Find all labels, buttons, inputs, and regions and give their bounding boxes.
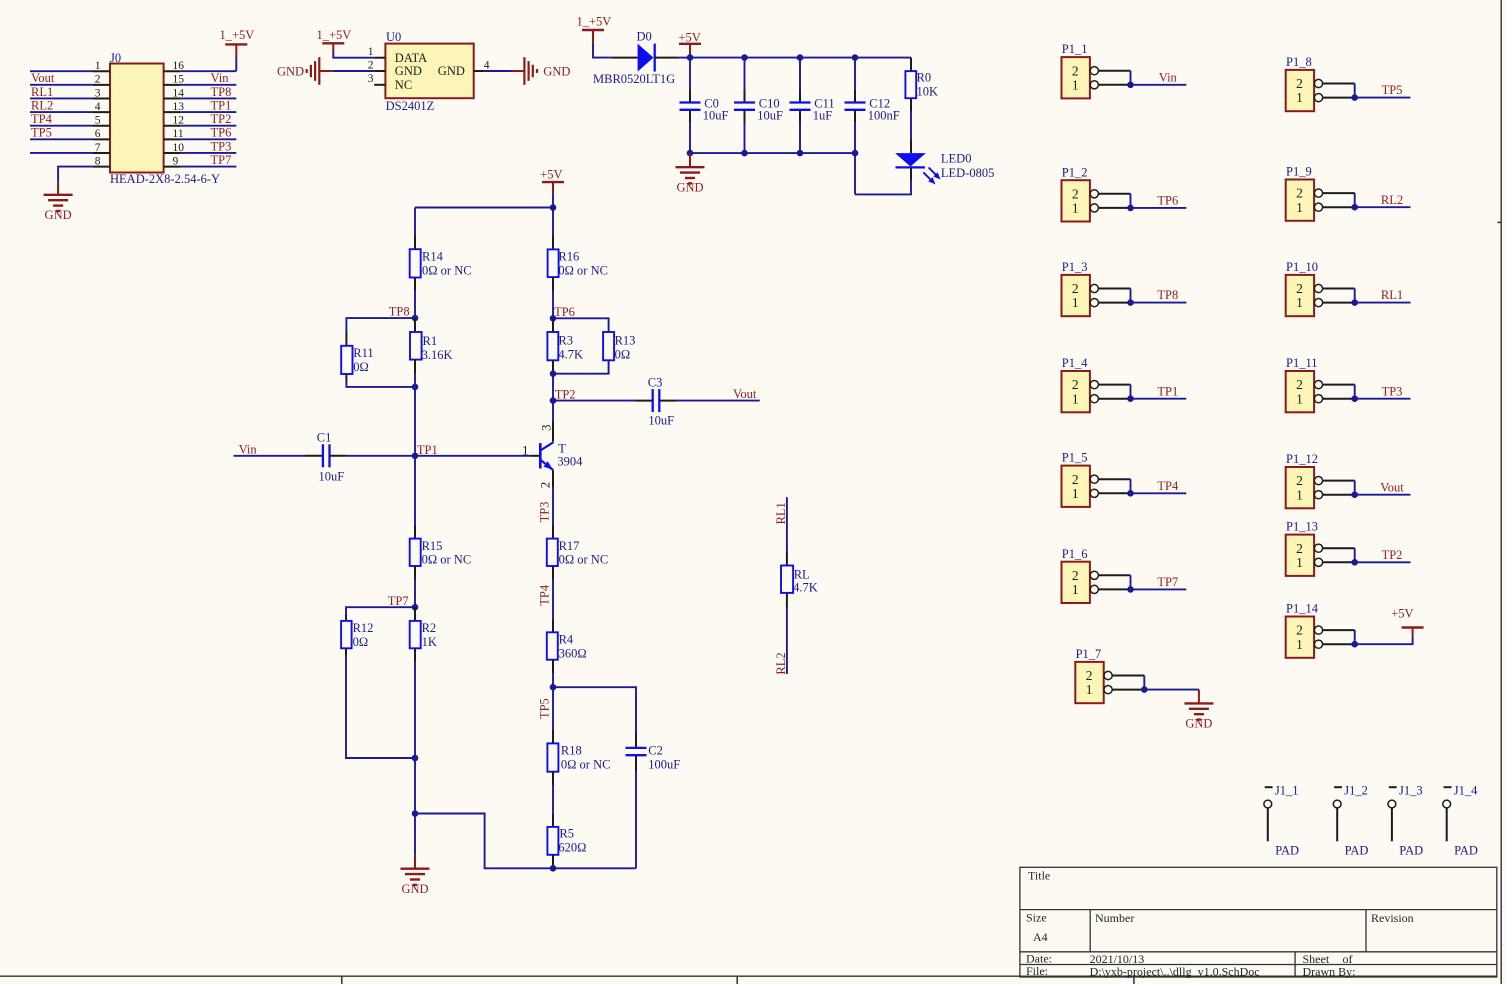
P1_1 pin 1 lead bbox=[1098, 84, 1130, 86]
svg-text:TP7: TP7 bbox=[1157, 575, 1178, 589]
svg-text:P1_5: P1_5 bbox=[1062, 451, 1088, 465]
wire C0 lower bbox=[689, 122, 691, 153]
node junction bottom C0 bbox=[687, 150, 694, 157]
wire P1_9 net bbox=[1355, 206, 1411, 208]
capacitor C11 bbox=[790, 101, 811, 103]
pad J1_1 terminal circle bbox=[1264, 800, 1272, 808]
svg-text:Revision: Revision bbox=[1371, 911, 1414, 925]
IC U0 body bbox=[385, 44, 473, 99]
svg-text:4.7K: 4.7K bbox=[558, 347, 583, 361]
resistor R17 bbox=[547, 539, 558, 566]
resistor R13 bbox=[603, 332, 614, 360]
sheet border zone tick bottom 3 bbox=[1133, 976, 1135, 984]
svg-text:GND: GND bbox=[543, 64, 570, 78]
J0 pin 5 bbox=[93, 125, 110, 127]
svg-text:2: 2 bbox=[1072, 377, 1079, 392]
svg-text:0Ω or NC: 0Ω or NC bbox=[559, 553, 609, 567]
svg-text:DS2401Z: DS2401Z bbox=[386, 99, 435, 113]
J0 pin 3 bbox=[93, 97, 110, 99]
wire red stub GND left bbox=[320, 70, 333, 72]
wire emitter to R17 bbox=[552, 487, 554, 525]
node TP7 bbox=[412, 604, 419, 611]
connector P1_14 body bbox=[1286, 617, 1314, 658]
resistor R3 bbox=[547, 332, 558, 360]
RL pin top bbox=[786, 551, 788, 566]
wire P1_3 net bbox=[1131, 302, 1187, 304]
J0 pin 8 bbox=[93, 166, 110, 168]
svg-text:100uF: 100uF bbox=[648, 757, 680, 771]
wire J0 pin4 left bbox=[30, 111, 93, 113]
node P1_12 junction bbox=[1351, 491, 1358, 498]
svg-text:LED0: LED0 bbox=[941, 152, 972, 166]
svg-text:1: 1 bbox=[1072, 201, 1079, 216]
svg-text:+5V: +5V bbox=[1391, 607, 1413, 621]
resistor R12 bbox=[341, 621, 352, 648]
connector P1_4 body bbox=[1062, 371, 1090, 412]
wire R11 to lower node bbox=[346, 382, 415, 387]
P1_8 pin 1 circle bbox=[1314, 94, 1322, 102]
wire U0 pin4 to GND bbox=[485, 70, 512, 72]
svg-text:3.16K: 3.16K bbox=[422, 348, 453, 362]
C0 pin lower bbox=[689, 111, 691, 123]
svg-text:P1_3: P1_3 bbox=[1062, 260, 1088, 274]
capacitor C3 bbox=[652, 389, 654, 412]
R15 pin bottom bbox=[414, 566, 416, 580]
svg-text:P1_13: P1_13 bbox=[1286, 520, 1318, 534]
P1_3 pin 1 lead bbox=[1098, 302, 1130, 304]
P1_14 pin 1 circle bbox=[1314, 640, 1322, 648]
wire R0 branch top bbox=[910, 58, 912, 72]
wire P1_12 net bbox=[1355, 494, 1411, 496]
resistor R0 bbox=[905, 71, 916, 98]
svg-text:100nF: 100nF bbox=[868, 109, 900, 123]
svg-text:2: 2 bbox=[95, 74, 101, 86]
node P1_11 junction bbox=[1351, 395, 1358, 402]
svg-text:2: 2 bbox=[538, 482, 553, 489]
pad J1_3 terminal circle bbox=[1388, 800, 1396, 808]
connector P1_5 body bbox=[1062, 466, 1090, 507]
svg-text:RL1: RL1 bbox=[1381, 288, 1403, 302]
svg-text:1: 1 bbox=[1296, 90, 1303, 105]
wire P1_7 to GND bbox=[1144, 689, 1199, 691]
svg-text:0Ω: 0Ω bbox=[353, 635, 369, 649]
wire P1_1 net bbox=[1131, 84, 1187, 86]
wire +5V stem bbox=[552, 194, 554, 207]
svg-text:RL1: RL1 bbox=[31, 85, 53, 99]
wire P1_12 pin2 bend bbox=[1354, 481, 1356, 495]
svg-text:TP3: TP3 bbox=[537, 502, 551, 523]
wire +5V rail to R0 bbox=[690, 57, 911, 59]
svg-text:P1_4: P1_4 bbox=[1062, 356, 1088, 370]
R3 pin bottom bbox=[552, 360, 554, 373]
svg-text:Vout: Vout bbox=[31, 71, 55, 85]
R5 pin bottom bbox=[552, 855, 554, 869]
P1_13 pin 2 lead bbox=[1323, 547, 1355, 549]
svg-text:LED-0805: LED-0805 bbox=[941, 166, 994, 180]
svg-text:3: 3 bbox=[368, 73, 374, 85]
resistor R18 bbox=[547, 743, 558, 771]
wire TP1 to R15 bbox=[414, 456, 416, 525]
node GND branch junction bbox=[412, 810, 419, 817]
power port 1_+5V at D0 bbox=[582, 29, 604, 31]
svg-text:RL: RL bbox=[794, 568, 810, 582]
svg-text:RL2: RL2 bbox=[1381, 193, 1403, 207]
svg-text:TP1: TP1 bbox=[1157, 384, 1178, 398]
capacitor C2 bbox=[626, 747, 647, 749]
svg-text:R5: R5 bbox=[559, 827, 574, 841]
wire J0 pin16 right bbox=[181, 70, 237, 72]
P1_11 pin 2 circle bbox=[1314, 381, 1322, 389]
connector P1_1 body bbox=[1062, 57, 1090, 98]
R4 pin bottom bbox=[552, 660, 554, 673]
P1_11 pin 1 circle bbox=[1314, 395, 1322, 403]
resistor R1 bbox=[410, 332, 422, 360]
U0 pin 1 bbox=[375, 57, 386, 59]
P1_7 pin 2 circle bbox=[1104, 671, 1112, 679]
svg-text:TP8: TP8 bbox=[389, 304, 410, 318]
svg-text:File:: File: bbox=[1026, 964, 1048, 978]
J0 pin 11 bbox=[164, 138, 181, 140]
J0 pin 2 bbox=[93, 84, 110, 86]
P1_2 pin 2 lead bbox=[1098, 193, 1130, 195]
wire node to TP2 bbox=[552, 374, 554, 401]
connector P1_9 body bbox=[1286, 180, 1314, 221]
C10 pin upper bbox=[744, 90, 746, 102]
transistor T Q-3904 bbox=[539, 443, 542, 468]
resistor R14 bbox=[410, 249, 421, 277]
wire J0 pin3 left bbox=[30, 97, 93, 99]
svg-text:R16: R16 bbox=[558, 250, 579, 264]
C12 pin upper bbox=[854, 90, 856, 102]
sheet border right edge bbox=[1500, 0, 1502, 984]
C0 pin upper bbox=[689, 90, 691, 102]
svg-text:1: 1 bbox=[1296, 391, 1303, 406]
J0 pin 15 bbox=[164, 84, 181, 86]
R1 pin bottom bbox=[414, 360, 416, 373]
J0 pin 7 bbox=[93, 152, 110, 154]
wire R0 to LED0 bbox=[910, 98, 912, 111]
svg-text:360Ω: 360Ω bbox=[559, 646, 587, 660]
wire R18 to R5 bbox=[552, 785, 554, 813]
svg-text:PAD: PAD bbox=[1454, 844, 1478, 858]
svg-text:13: 13 bbox=[173, 101, 185, 113]
svg-text:P1_12: P1_12 bbox=[1286, 452, 1318, 466]
wire to bottom rail bbox=[415, 814, 636, 869]
P1_5 pin 1 lead bbox=[1098, 492, 1130, 494]
C1 pin right bbox=[330, 455, 346, 457]
wire rail to R16 bbox=[552, 208, 554, 236]
R18 pin top bbox=[552, 730, 554, 743]
P1_6 pin 2 circle bbox=[1090, 571, 1098, 579]
wire C12 bottom to LED return bbox=[854, 153, 856, 194]
wire P1_4 net bbox=[1131, 398, 1187, 400]
svg-text:TP1: TP1 bbox=[211, 98, 232, 112]
pad J1_4 no-connect dash bbox=[1444, 786, 1452, 788]
node junction at C11 bbox=[797, 54, 804, 61]
P1_4 pin 1 lead bbox=[1098, 398, 1130, 400]
svg-text:1_+5V: 1_+5V bbox=[577, 14, 612, 28]
wire P1_5 net bbox=[1131, 492, 1187, 494]
svg-text:R12: R12 bbox=[353, 621, 374, 635]
P1_8 pin 2 lead bbox=[1323, 83, 1355, 85]
svg-text:620Ω: 620Ω bbox=[558, 841, 586, 855]
sheet border zone tick bottom 2 bbox=[736, 976, 738, 984]
node junction bottom C12 bbox=[852, 150, 859, 157]
wire C3 to Vout bbox=[677, 400, 760, 402]
P1_11 pin 1 lead bbox=[1323, 398, 1355, 400]
wire node to GND corner bbox=[414, 758, 416, 814]
title block frame bbox=[1020, 867, 1497, 977]
svg-text:RL1: RL1 bbox=[774, 502, 788, 524]
svg-text:1: 1 bbox=[1072, 582, 1079, 597]
node TP2 bbox=[550, 397, 557, 404]
P1_9 pin 1 lead bbox=[1323, 206, 1355, 208]
wire TP5 to C2 branch bbox=[553, 687, 636, 733]
wire P1_6 pin2 bend bbox=[1130, 575, 1132, 589]
P1_12 pin 1 lead bbox=[1323, 494, 1355, 496]
svg-text:GND: GND bbox=[1185, 717, 1212, 731]
svg-text:0Ω or NC: 0Ω or NC bbox=[422, 263, 472, 277]
LED0 emission arrow 1 bbox=[929, 168, 937, 176]
svg-text:2: 2 bbox=[1072, 281, 1079, 296]
svg-text:R15: R15 bbox=[422, 539, 443, 553]
svg-text:GND: GND bbox=[395, 64, 422, 78]
svg-text:TP8: TP8 bbox=[1157, 288, 1178, 302]
P1_5 pin 2 circle bbox=[1090, 475, 1098, 483]
svg-text:GND: GND bbox=[676, 181, 703, 195]
U0 pin 3 bbox=[374, 84, 385, 86]
pad J1_2 no-connect dash bbox=[1334, 786, 1342, 788]
P1_9 pin 1 circle bbox=[1314, 203, 1322, 211]
node TP5 bbox=[550, 684, 557, 691]
wire P1_11 net bbox=[1355, 398, 1411, 400]
svg-text:+5V: +5V bbox=[540, 168, 562, 182]
wire LED0 to GND rail bbox=[855, 180, 911, 194]
svg-text:1: 1 bbox=[368, 46, 374, 58]
ground GND at P1_7 bbox=[1198, 690, 1200, 704]
wire J0 pin7 left bbox=[30, 152, 93, 154]
connector P1_8 body bbox=[1286, 70, 1314, 111]
svg-text:0Ω: 0Ω bbox=[353, 360, 369, 374]
svg-text:TP4: TP4 bbox=[537, 584, 551, 606]
svg-text:PAD: PAD bbox=[1345, 844, 1369, 858]
svg-text:R3: R3 bbox=[558, 334, 573, 348]
wire red stub GND right bbox=[512, 70, 525, 72]
svg-text:RL2: RL2 bbox=[774, 652, 788, 674]
pad J1_4 terminal circle bbox=[1443, 800, 1451, 808]
svg-text:TP2: TP2 bbox=[211, 112, 232, 126]
R12 pin bottom bbox=[345, 648, 347, 655]
pad J1_4 lead bbox=[1446, 808, 1448, 841]
LED LED0 bbox=[895, 153, 926, 166]
svg-text:TP5: TP5 bbox=[1382, 83, 1403, 97]
connector P1_6 body bbox=[1062, 562, 1090, 603]
RL pin bottom bbox=[786, 593, 788, 607]
wire J0 pin8 to GND bbox=[58, 167, 93, 183]
wire +5V to D0 anode bbox=[593, 44, 612, 58]
svg-text:HEAD-2X8-2.54-6-Y: HEAD-2X8-2.54-6-Y bbox=[110, 172, 220, 186]
P1_12 pin 2 circle bbox=[1314, 477, 1322, 485]
P1_9 pin 2 lead bbox=[1323, 192, 1355, 194]
R12 pin top bbox=[345, 615, 347, 621]
svg-text:Vout: Vout bbox=[733, 387, 757, 401]
svg-text:R0: R0 bbox=[917, 70, 932, 84]
P1_12 pin 1 circle bbox=[1314, 491, 1322, 499]
svg-text:0Ω or NC: 0Ω or NC bbox=[558, 263, 608, 277]
J0 pin 16 bbox=[164, 70, 181, 72]
svg-text:2: 2 bbox=[368, 60, 374, 72]
power port +5V at P1_14 bbox=[1402, 626, 1424, 628]
resistor R4 bbox=[547, 632, 558, 659]
svg-text:TP8: TP8 bbox=[211, 85, 232, 99]
svg-text:2: 2 bbox=[1296, 76, 1303, 91]
P1_1 pin 2 circle bbox=[1090, 67, 1098, 75]
node TP1 bbox=[412, 453, 419, 460]
wire P1_14 to +5V bbox=[1355, 637, 1413, 644]
svg-text:TP6: TP6 bbox=[1157, 194, 1178, 208]
node P1_3 junction bbox=[1127, 299, 1134, 306]
P1_3 pin 2 lead bbox=[1098, 288, 1130, 290]
wire Vin to C1 bbox=[234, 455, 306, 457]
P1_8 pin 1 lead bbox=[1323, 97, 1355, 99]
resistor R2 bbox=[410, 621, 421, 648]
wire J0 pin11 right bbox=[181, 138, 237, 140]
J0 pin 4 bbox=[93, 111, 110, 113]
node P1_14 junction bbox=[1351, 641, 1358, 648]
svg-text:RL2: RL2 bbox=[31, 98, 53, 112]
connector P1_7 body bbox=[1075, 662, 1103, 703]
P1_12 pin 2 lead bbox=[1323, 480, 1355, 482]
svg-text:P1_6: P1_6 bbox=[1062, 547, 1088, 561]
svg-text:2: 2 bbox=[1296, 186, 1303, 201]
P1_4 pin 2 circle bbox=[1090, 381, 1098, 389]
pad J1_2 lead bbox=[1336, 808, 1338, 841]
node P1_10 junction bbox=[1351, 299, 1358, 306]
svg-text:1: 1 bbox=[1072, 77, 1079, 92]
P1_7 pin 1 lead bbox=[1112, 689, 1144, 691]
P1_10 pin 2 lead bbox=[1323, 288, 1355, 290]
svg-text:TP4: TP4 bbox=[1157, 479, 1179, 493]
svg-text:C3: C3 bbox=[648, 375, 663, 389]
node R1-R11 junction bbox=[412, 384, 419, 391]
P1_1 pin 2 lead bbox=[1098, 70, 1130, 72]
wire C10 lower bbox=[744, 122, 746, 153]
wire TP7 to R12 bbox=[346, 607, 415, 614]
svg-text:10K: 10K bbox=[917, 84, 939, 98]
J0 pin 6 bbox=[93, 138, 110, 140]
node P1_1 junction bbox=[1127, 82, 1134, 89]
wire P1_5 pin2 bend bbox=[1130, 479, 1132, 493]
R5 pin top bbox=[552, 813, 554, 827]
svg-text:R13: R13 bbox=[615, 334, 636, 348]
svg-text:7: 7 bbox=[95, 142, 101, 154]
svg-text:1K: 1K bbox=[422, 635, 437, 649]
LED0 cathode pin bbox=[910, 167, 912, 180]
wire P1_9 pin2 bend bbox=[1354, 193, 1356, 207]
P1_10 pin 1 lead bbox=[1323, 302, 1355, 304]
svg-text:Vout: Vout bbox=[1380, 480, 1404, 494]
svg-text:J1_4: J1_4 bbox=[1454, 784, 1478, 798]
svg-text:10uF: 10uF bbox=[703, 109, 729, 123]
wire TP2 to collector bbox=[552, 401, 554, 421]
node junction at C12 bbox=[852, 54, 859, 61]
wire RL1 net bbox=[786, 497, 788, 551]
svg-text:8: 8 bbox=[95, 155, 101, 167]
svg-text:3904: 3904 bbox=[557, 454, 583, 468]
C12 pin lower bbox=[854, 111, 856, 123]
svg-text:5: 5 bbox=[95, 115, 101, 127]
P1_10 pin 1 circle bbox=[1314, 299, 1322, 307]
R1 pin top bbox=[414, 318, 416, 332]
svg-text:C1: C1 bbox=[317, 430, 332, 444]
capacitor C12 bbox=[845, 101, 866, 103]
P1_7 pin 2 lead bbox=[1112, 675, 1144, 677]
svg-text:2: 2 bbox=[1086, 668, 1093, 683]
connector P1_3 body bbox=[1062, 275, 1090, 316]
wire J0 pin14 right bbox=[181, 97, 237, 99]
wire J0 pin9 right bbox=[181, 166, 237, 168]
capacitor C10 bbox=[734, 101, 755, 103]
transistor T base pin bbox=[530, 455, 540, 457]
svg-text:15: 15 bbox=[173, 74, 185, 86]
wire C11 lower bbox=[799, 122, 801, 153]
P1_13 pin 1 circle bbox=[1314, 558, 1322, 566]
svg-text:D:\yxb-project\..\dllg_v1.0.Sc: D:\yxb-project\..\dllg_v1.0.SchDoc bbox=[1090, 964, 1260, 978]
svg-text:4: 4 bbox=[95, 101, 101, 113]
wire C0 upper bbox=[689, 58, 691, 90]
svg-text:2: 2 bbox=[1072, 63, 1079, 78]
R17 pin top bbox=[552, 525, 554, 539]
sheet border bottom edge bbox=[0, 975, 1497, 977]
wire P1_13 pin2 bend bbox=[1354, 548, 1356, 562]
svg-text:Number: Number bbox=[1095, 911, 1134, 925]
node P1_4 junction bbox=[1127, 395, 1134, 402]
P1_3 pin 2 circle bbox=[1090, 284, 1098, 292]
node TP8 bbox=[412, 315, 419, 322]
svg-text:1: 1 bbox=[1296, 295, 1303, 310]
wire R13 to node bbox=[553, 360, 609, 373]
power port +5V at C0 bbox=[679, 43, 701, 45]
svg-text:1: 1 bbox=[1072, 295, 1079, 310]
diode D0 bbox=[638, 44, 654, 72]
C11 pin lower bbox=[799, 111, 801, 123]
wire J0 pin5 left bbox=[30, 125, 93, 127]
wire J0 pin2 left bbox=[30, 84, 93, 86]
svg-text:1_+5V: 1_+5V bbox=[220, 28, 255, 42]
transistor collector pin bbox=[552, 421, 554, 442]
wire J0 pin15 right bbox=[181, 84, 237, 86]
connector P1_10 body bbox=[1286, 275, 1314, 316]
node R5 bottom junction bbox=[550, 865, 557, 872]
sheet border zone tick bottom 1 bbox=[341, 976, 343, 984]
svg-text:1: 1 bbox=[1296, 200, 1303, 215]
C1 pin left bbox=[305, 455, 322, 457]
C3 pin left bbox=[636, 400, 653, 402]
connector J0 body bbox=[110, 64, 164, 173]
node +5V junction at C0 bbox=[687, 54, 694, 61]
svg-text:TP3: TP3 bbox=[1382, 384, 1403, 398]
svg-text:0Ω or NC: 0Ω or NC bbox=[561, 757, 611, 771]
svg-text:16: 16 bbox=[173, 60, 185, 72]
wire P1_14 pin2 bend bbox=[1354, 630, 1356, 644]
svg-text:MBR0520LT1G: MBR0520LT1G bbox=[593, 72, 675, 86]
LED0 emission arrow 2 bbox=[923, 172, 931, 180]
svg-text:2: 2 bbox=[1072, 186, 1079, 201]
P1_11 pin 2 lead bbox=[1323, 384, 1355, 386]
resistor R16 bbox=[548, 249, 559, 277]
J0 pin 13 bbox=[164, 111, 181, 113]
wire P1_13 net bbox=[1355, 561, 1411, 563]
